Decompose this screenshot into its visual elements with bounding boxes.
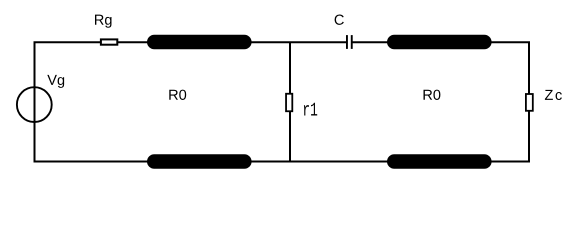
capacitor C right plate [351,35,353,49]
label Rg [95,15,112,28]
resistor r1 [286,94,292,112]
transmission line R0 top-right [387,35,492,50]
label R0 left [169,90,186,100]
wire through Vg [34,86,36,124]
transmission line R0 bottom-right [387,154,492,169]
capacitor C gap [348,41,351,45]
label C [335,15,344,25]
wire middle vertical [289,42,291,161]
resistor Zc [526,94,533,111]
label R0 right [424,90,441,100]
label Vg [47,75,64,88]
wire outer loop [35,42,530,161]
label r1 [304,103,317,116]
capacitor C left plate [346,35,348,49]
voltage source Vg [17,87,52,122]
label Zc [545,90,562,100]
transmission line R0 top-left [147,35,252,50]
transmission line R0 bottom-left [147,154,252,169]
resistor Rg [101,39,117,44]
